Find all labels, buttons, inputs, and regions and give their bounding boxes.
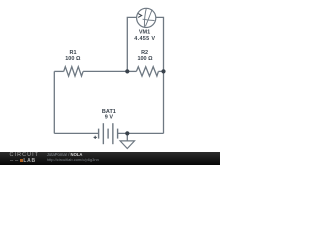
ground <box>120 133 134 148</box>
footer author text <box>47 153 83 157</box>
wire bottom left column to battery <box>54 132 98 134</box>
resistor R2 <box>136 67 158 76</box>
footer url text <box>47 158 99 162</box>
svg-text:VM1: VM1 <box>139 30 150 36</box>
CircuitLab logo <box>10 153 40 158</box>
wire R1 left lead <box>54 70 63 72</box>
svg-text:9 V: 9 V <box>105 115 114 121</box>
wire R1 to node A <box>83 70 127 72</box>
wire VM1 left lead down to node A <box>127 17 136 71</box>
node B junction dot <box>161 69 165 73</box>
wire right column node B to bottom right corner <box>163 71 165 133</box>
wire R2 left lead <box>127 70 136 72</box>
wire bottom right battery to right column <box>118 132 164 134</box>
voltmeter VM1 <box>137 8 156 27</box>
svg-text:100 Ω: 100 Ω <box>137 56 153 62</box>
resistor R1 <box>64 67 83 76</box>
wire left column <box>53 71 55 133</box>
battery BAT1 <box>94 123 118 144</box>
svg-text:4.455 V: 4.455 V <box>134 36 155 42</box>
node A junction dot <box>125 69 129 73</box>
ground junction dot <box>125 131 129 135</box>
svg-text:R1: R1 <box>69 50 76 56</box>
wire VM1 right lead down to node B <box>156 17 164 71</box>
svg-text:100 Ω: 100 Ω <box>65 56 81 62</box>
footer watermark bar <box>0 152 220 165</box>
svg-text:R2: R2 <box>141 50 148 56</box>
wire R2 right lead to node B <box>158 70 163 72</box>
